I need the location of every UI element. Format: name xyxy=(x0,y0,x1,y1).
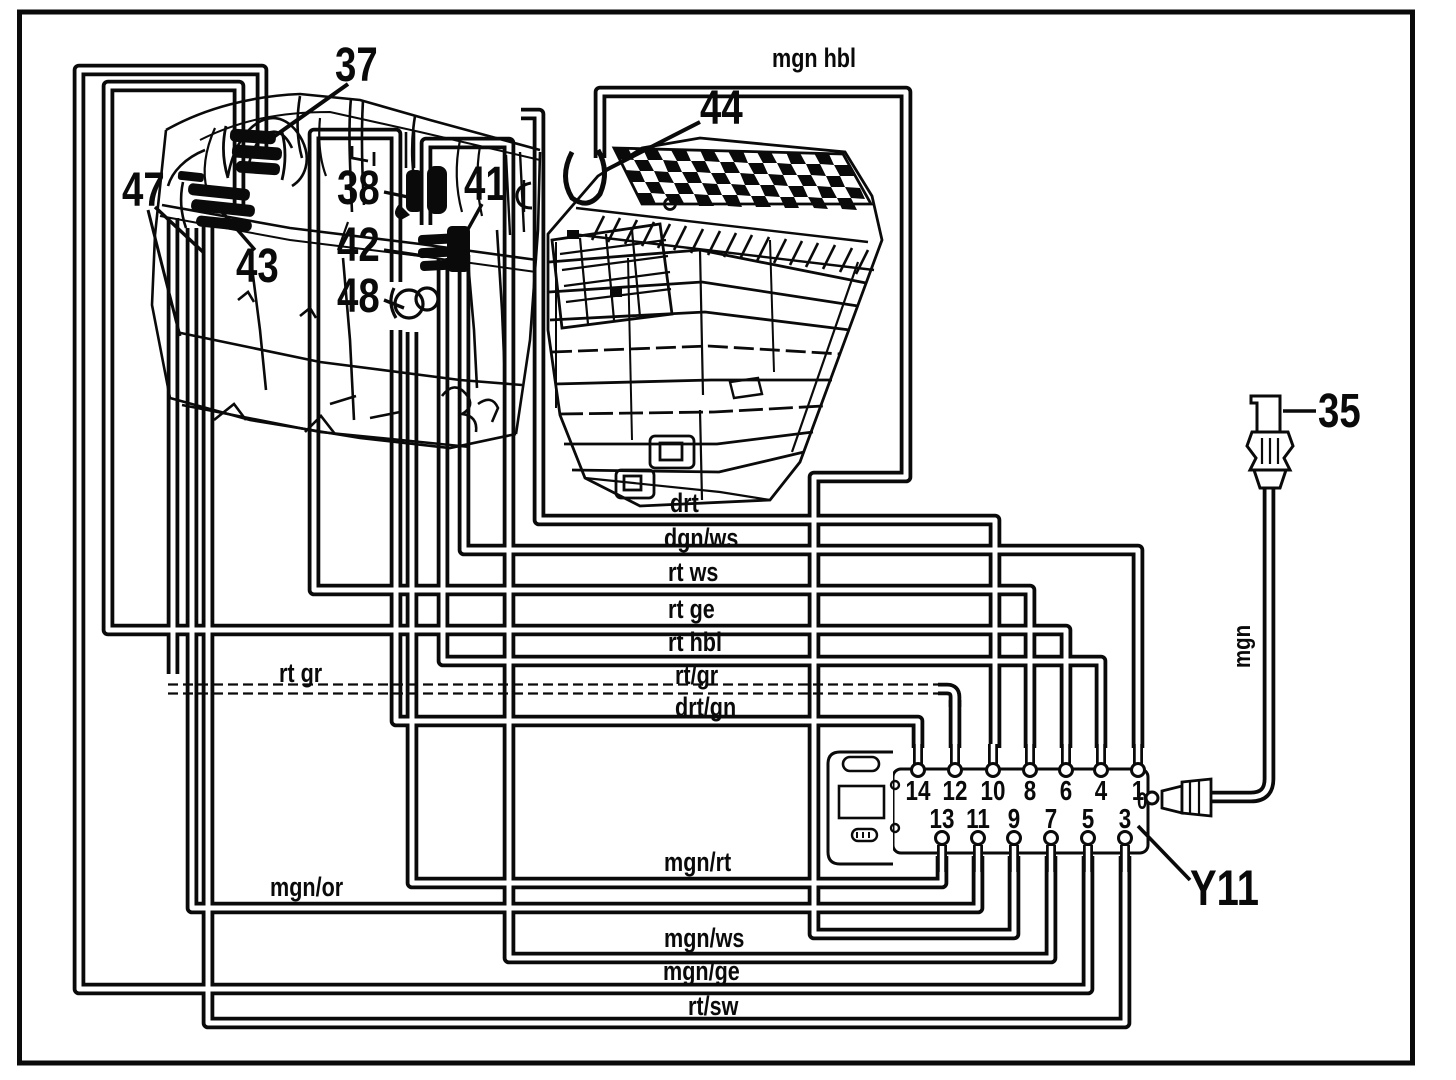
svg-text:rt ws: rt ws xyxy=(668,558,718,588)
svg-text:rt gr: rt gr xyxy=(279,659,323,689)
svg-text:4: 4 xyxy=(1095,776,1107,807)
svg-text:rt hbl: rt hbl xyxy=(668,628,722,658)
svg-text:mgn/or: mgn/or xyxy=(270,873,344,903)
svg-text:43: 43 xyxy=(236,240,279,293)
svg-text:13: 13 xyxy=(930,804,955,835)
svg-text:11: 11 xyxy=(966,804,990,835)
svg-text:42: 42 xyxy=(337,219,380,272)
svg-text:3: 3 xyxy=(1119,804,1131,835)
svg-text:14: 14 xyxy=(906,776,931,807)
svg-text:rt/gr: rt/gr xyxy=(675,661,719,691)
svg-text:41: 41 xyxy=(464,158,507,211)
svg-text:44: 44 xyxy=(700,82,743,135)
svg-text:37: 37 xyxy=(335,39,378,92)
svg-text:38: 38 xyxy=(337,162,380,215)
svg-text:mgn/ge: mgn/ge xyxy=(663,957,740,987)
svg-text:mgn hbl: mgn hbl xyxy=(772,44,856,74)
svg-text:rt ge: rt ge xyxy=(668,595,715,625)
svg-text:dgn/ws: dgn/ws xyxy=(664,524,738,554)
svg-text:1: 1 xyxy=(1132,776,1144,807)
svg-text:rt/sw: rt/sw xyxy=(688,992,739,1022)
svg-text:47: 47 xyxy=(122,164,165,217)
svg-text:8: 8 xyxy=(1024,776,1036,807)
svg-text:mgn/ws: mgn/ws xyxy=(664,924,744,954)
svg-text:mgn/rt: mgn/rt xyxy=(664,848,731,878)
svg-text:9: 9 xyxy=(1008,804,1020,835)
svg-text:7: 7 xyxy=(1045,804,1057,835)
svg-text:12: 12 xyxy=(943,776,968,807)
svg-text:5: 5 xyxy=(1082,804,1094,835)
svg-text:drt/gn: drt/gn xyxy=(675,693,736,723)
svg-text:drt: drt xyxy=(670,489,699,519)
svg-text:35: 35 xyxy=(1318,385,1361,438)
svg-text:10: 10 xyxy=(981,776,1006,807)
svg-text:Y11: Y11 xyxy=(1190,860,1259,916)
svg-text:48: 48 xyxy=(337,270,380,323)
svg-text:6: 6 xyxy=(1060,776,1072,807)
svg-text:mgn: mgn xyxy=(1228,625,1255,668)
